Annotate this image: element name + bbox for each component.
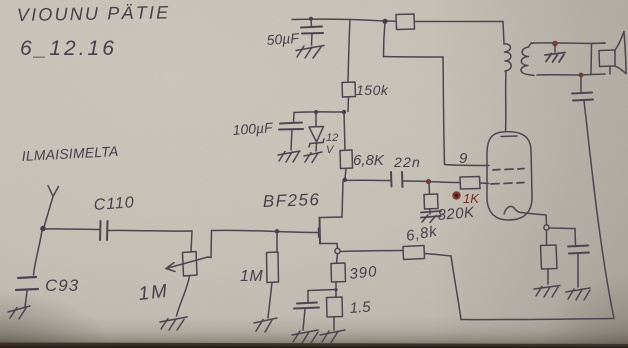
svg-text:6,8K: 6,8K <box>353 152 385 169</box>
svg-text:50µF: 50µF <box>266 30 301 48</box>
svg-text:820K: 820K <box>437 204 476 224</box>
svg-text:1K: 1K <box>463 191 480 206</box>
svg-text:22n: 22n <box>393 154 421 170</box>
svg-text:100µF: 100µF <box>232 119 274 138</box>
svg-text:12: 12 <box>326 132 338 144</box>
svg-text:390: 390 <box>349 263 379 283</box>
svg-text:C110: C110 <box>93 194 135 214</box>
svg-text:1M: 1M <box>240 268 263 285</box>
svg-text:1M: 1M <box>137 281 169 305</box>
svg-text:150k: 150k <box>356 82 389 98</box>
svg-text:6_12.16: 6_12.16 <box>20 37 117 60</box>
svg-text:1.5: 1.5 <box>349 299 372 317</box>
svg-text:9: 9 <box>459 150 468 167</box>
svg-text:VIOUNU PÄTIE: VIOUNU PÄTIE <box>17 2 171 25</box>
svg-text:BF256: BF256 <box>262 190 320 211</box>
svg-text:C93: C93 <box>45 276 79 295</box>
